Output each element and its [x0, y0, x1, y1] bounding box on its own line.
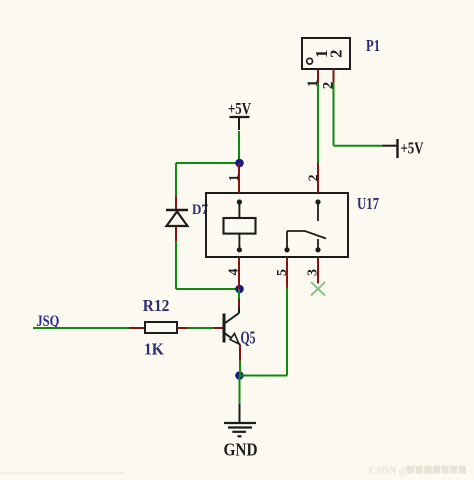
svg-text:CSDN @: CSDN @	[369, 466, 408, 477]
svg-text:Q5: Q5	[241, 328, 256, 348]
svg-text:+5V: +5V	[228, 99, 252, 118]
svg-text:P1: P1	[366, 36, 380, 55]
svg-text:GND: GND	[224, 440, 258, 460]
svg-text:5: 5	[275, 269, 290, 276]
svg-text:3: 3	[306, 269, 321, 276]
svg-text:U17: U17	[357, 194, 379, 213]
svg-text:1: 1	[305, 80, 321, 88]
svg-text:4: 4	[227, 269, 242, 276]
svg-text:2: 2	[327, 50, 346, 59]
svg-text:R12: R12	[143, 296, 170, 315]
svg-text:+5V: +5V	[401, 139, 425, 158]
svg-text:1K: 1K	[144, 340, 164, 359]
svg-text:2: 2	[307, 175, 322, 182]
svg-text:2: 2	[321, 82, 337, 90]
svg-text:1: 1	[227, 175, 242, 182]
